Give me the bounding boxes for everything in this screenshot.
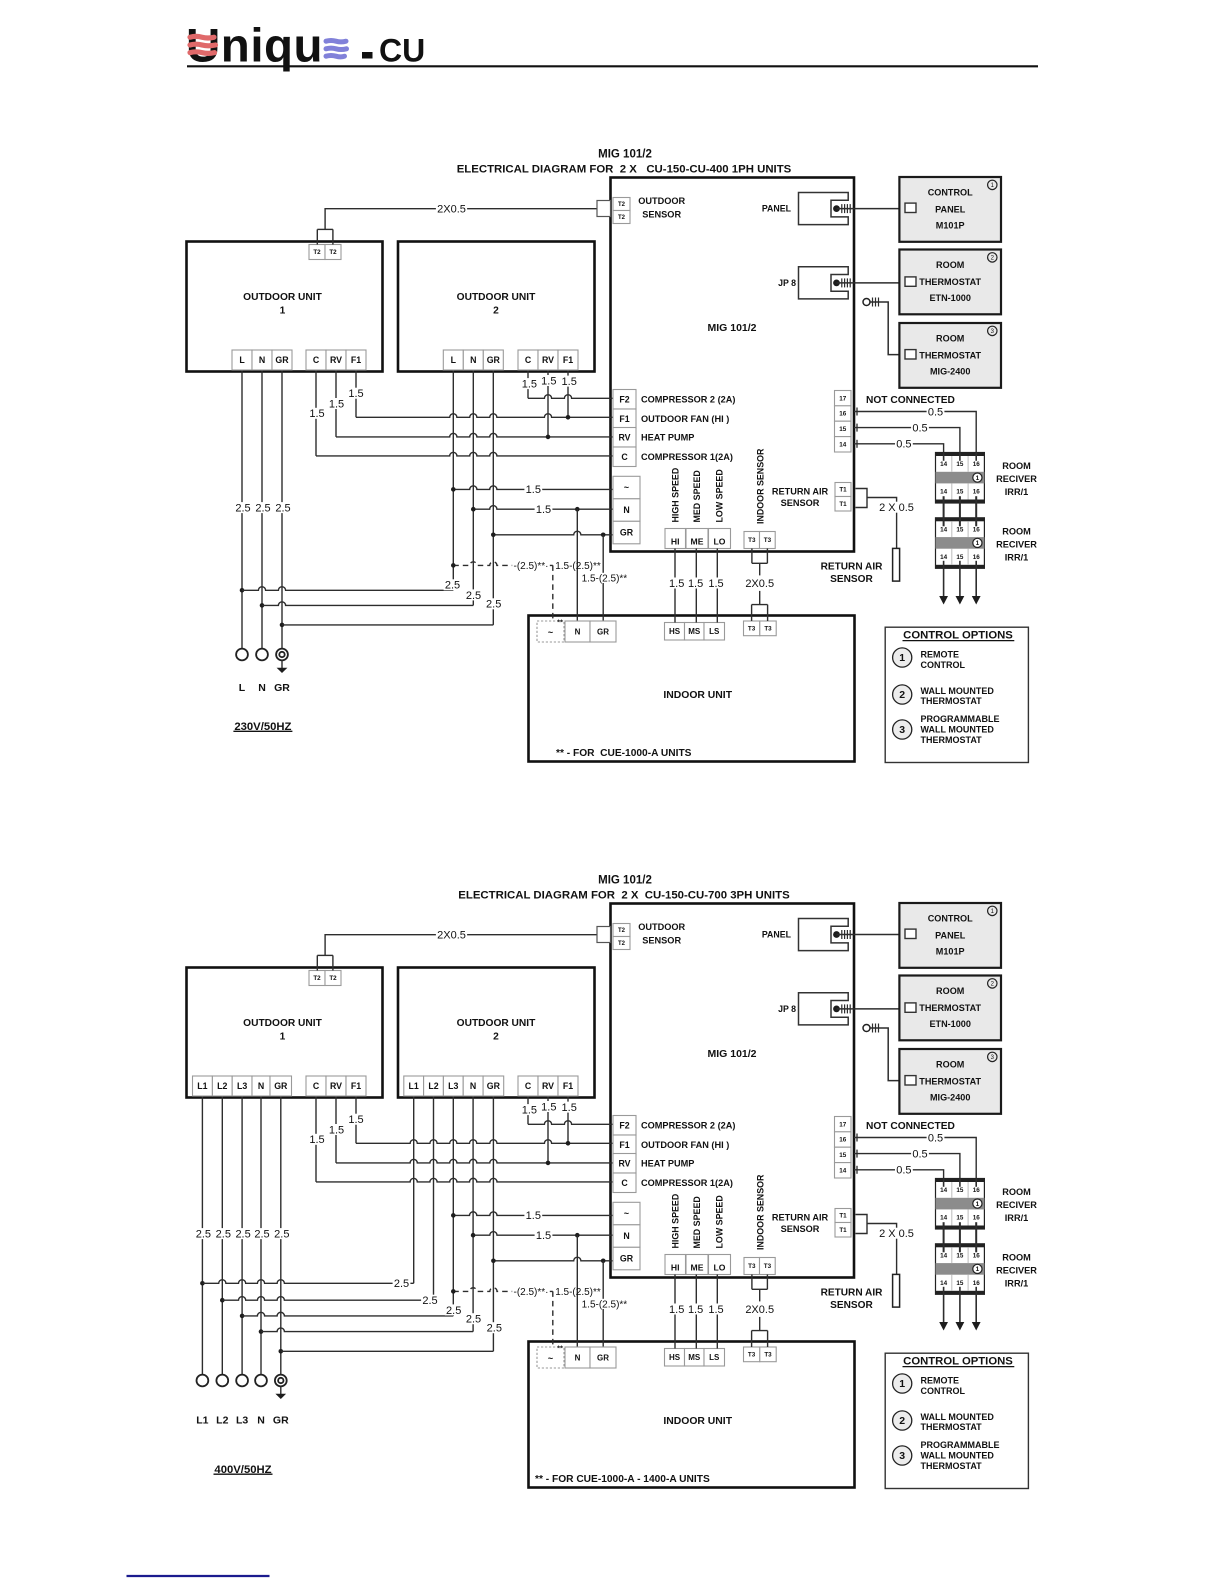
svg-text:L: L	[239, 682, 246, 694]
unit1 terminal L3	[232, 1076, 252, 1096]
svg-text:HEAT PUMP: HEAT PUMP	[641, 1158, 694, 1168]
svg-text:F1: F1	[619, 1140, 629, 1150]
unit1 terminal N	[252, 1076, 270, 1096]
svg-text:THERMOSTAT: THERMOSTAT	[921, 1461, 983, 1471]
svg-text:16: 16	[973, 527, 981, 534]
svg-text:CONTROL OPTIONS: CONTROL OPTIONS	[903, 1355, 1013, 1367]
svg-text:HEAT PUMP: HEAT PUMP	[641, 432, 694, 442]
svg-text:2.5: 2.5	[486, 599, 501, 611]
svg-text:ELECTRICAL DIAGRAM FOR 2 X: ELECTRICAL DIAGRAM FOR 2 X CU-150-CU-400…	[457, 164, 792, 176]
wire N down to indoor	[576, 509, 578, 621]
main terminal RV	[613, 428, 636, 448]
svg-text:1.5: 1.5	[522, 1104, 537, 1116]
label 1.5 unit1 C	[308, 1134, 326, 1145]
connector PANEL	[799, 919, 849, 951]
logo blue stripes (e)	[326, 41, 346, 42]
dashed ~ wire to indoor	[453, 562, 553, 566]
main terminal HI	[665, 1255, 686, 1275]
wire unit1 RV to main RV	[335, 370, 337, 437]
svg-text:CU: CU	[379, 33, 425, 69]
wire GR down to indoor	[602, 1261, 604, 1347]
svg-text:GR: GR	[620, 1254, 634, 1264]
svg-text:ROOM: ROOM	[936, 334, 964, 344]
svg-text:2X0.5: 2X0.5	[745, 578, 774, 590]
label 2.5 supply	[254, 502, 272, 513]
svg-text:16: 16	[973, 554, 981, 561]
label 2X0.5 outdoor sensor	[436, 203, 467, 214]
main terminal GR	[613, 1247, 640, 1270]
main terminal ~	[613, 476, 640, 499]
svg-text:IRR/1: IRR/1	[1005, 553, 1029, 563]
label 1.5 unit2 F1	[560, 376, 578, 387]
svg-text:GR: GR	[274, 682, 290, 694]
main terminal C	[613, 447, 636, 467]
svg-text:2: 2	[493, 1032, 499, 1043]
svg-text:WALL MOUNTED: WALL MOUNTED	[921, 1450, 995, 1460]
svg-text:1.5: 1.5	[669, 1304, 684, 1316]
svg-text:L2: L2	[216, 1415, 228, 1427]
unit1 power wires down	[241, 370, 243, 649]
svg-text:ROOM: ROOM	[936, 260, 964, 270]
svg-text:N: N	[623, 505, 629, 515]
ground terminal circle	[275, 1375, 287, 1387]
svg-text:HIGH SPEED: HIGH SPEED	[670, 1193, 680, 1248]
outdoor unit 1 box	[187, 242, 383, 372]
supply terminal N	[256, 649, 268, 661]
svg-text:~: ~	[624, 483, 629, 493]
svg-text:N: N	[575, 627, 581, 636]
svg-text:L2: L2	[217, 1081, 227, 1091]
indoor terminal ~	[537, 621, 564, 642]
svg-text:T2: T2	[618, 941, 626, 947]
svg-text:RECIVER: RECIVER	[996, 540, 1037, 550]
svg-text:T2: T2	[329, 975, 337, 982]
svg-text:15: 15	[956, 489, 964, 496]
svg-text:GR: GR	[597, 627, 609, 636]
svg-text:N: N	[623, 1231, 629, 1241]
supply terminal N	[255, 1375, 267, 1387]
earth arrow	[281, 660, 283, 668]
svg-text:1: 1	[976, 1266, 980, 1273]
svg-text:REMOTE: REMOTE	[921, 649, 960, 659]
svg-text:F2: F2	[619, 394, 629, 404]
svg-text:COMPRESSOR 1(2A): COMPRESSOR 1(2A)	[641, 452, 733, 462]
svg-text:T2: T2	[313, 975, 321, 982]
svg-text:RETURN AIR: RETURN AIR	[772, 487, 829, 497]
outdoor sensor cable	[325, 209, 597, 230]
label 2.5 branch	[465, 1313, 483, 1324]
control option 2	[893, 1411, 912, 1430]
svg-text:2.5: 2.5	[235, 503, 250, 515]
fan speed wire to indoor	[695, 549, 697, 623]
unit1 terminal F1	[346, 1076, 366, 1096]
power branch lines to unit2	[200, 1281, 205, 1286]
svg-text:16: 16	[973, 1215, 981, 1222]
unit2 terminal F1	[558, 1076, 578, 1096]
svg-text:GR: GR	[275, 355, 289, 365]
svg-text:RV: RV	[618, 1158, 630, 1168]
svg-text:0.5: 0.5	[928, 1132, 943, 1144]
unit2 terminal RV	[538, 350, 558, 370]
svg-text:1.5: 1.5	[562, 376, 577, 388]
unit1 terminal F1	[346, 350, 366, 370]
indoor terminal T3 b	[760, 1347, 776, 1362]
svg-text:ROOM: ROOM	[936, 986, 964, 996]
main terminal F2	[613, 1116, 636, 1136]
main box T2 terminals	[613, 924, 630, 937]
wire stubs into receiver 1	[943, 1179, 945, 1187]
svg-text:CONTROL: CONTROL	[928, 188, 973, 198]
control box ETN-1000	[899, 976, 1001, 1041]
svg-text:MIG 101/2: MIG 101/2	[707, 1048, 756, 1060]
svg-text:2.5: 2.5	[196, 1228, 211, 1240]
logo red stripes	[190, 36, 214, 38]
svg-text:2.5: 2.5	[487, 1323, 502, 1335]
svg-text:14: 14	[940, 1253, 948, 1260]
main terminal N	[613, 1225, 640, 1248]
svg-text:1.5: 1.5	[536, 504, 551, 516]
svg-text:THERMOSTAT: THERMOSTAT	[921, 735, 983, 745]
unit2 terminal N	[463, 350, 483, 370]
svg-text:ROOM: ROOM	[1002, 1253, 1031, 1263]
control options box	[885, 1353, 1028, 1488]
svg-text:PANEL: PANEL	[762, 204, 792, 214]
power branch lines to unit2	[240, 588, 245, 593]
unit2 terminal RV	[538, 1076, 558, 1096]
svg-text:1.5: 1.5	[329, 398, 344, 410]
svg-text:1: 1	[280, 1032, 286, 1043]
svg-text:15: 15	[956, 461, 964, 468]
svg-text:T2: T2	[618, 928, 626, 934]
room receiver IRR/1 block 2	[936, 518, 985, 569]
T2 cable bracket	[316, 955, 318, 970]
svg-text:PANEL: PANEL	[762, 930, 792, 940]
control option 1	[893, 648, 912, 667]
control option 1	[893, 1374, 912, 1393]
svg-text:0.5: 0.5	[928, 406, 943, 418]
svg-text:L2: L2	[428, 1081, 438, 1091]
wire N feed line	[473, 1232, 613, 1236]
outdoor sensor cable	[325, 935, 597, 956]
svg-text:14: 14	[839, 442, 847, 449]
svg-text:SENSOR: SENSOR	[830, 1300, 873, 1311]
svg-text:2: 2	[899, 1415, 905, 1427]
svg-text:OUTDOOR UNIT: OUTDOOR UNIT	[457, 1018, 536, 1029]
svg-text:14: 14	[940, 1215, 948, 1222]
main terminal 16	[835, 1132, 852, 1147]
svg-text:F1: F1	[563, 355, 573, 365]
svg-text:N: N	[470, 355, 476, 365]
indoor terminal HS	[665, 1349, 685, 1367]
main terminal 17	[835, 1117, 852, 1132]
svg-text:~: ~	[624, 1209, 629, 1219]
svg-text:PANEL: PANEL	[935, 930, 966, 940]
svg-text:OUTDOOR UNIT: OUTDOOR UNIT	[243, 292, 322, 303]
svg-text:15: 15	[956, 1280, 964, 1287]
label 2.5 branch	[485, 1322, 503, 1333]
svg-text:THERMOSTAT: THERMOSTAT	[921, 1422, 983, 1432]
T3 bracket at indoor unit	[752, 604, 768, 606]
svg-text:THERMOSTAT: THERMOSTAT	[919, 277, 981, 287]
wire unit2 F1 joins F1 line	[567, 370, 569, 417]
control box ETN-1000	[899, 250, 1001, 315]
connector square MIG-2400	[905, 1076, 916, 1085]
connector JP 8	[799, 267, 849, 299]
svg-text:ROOM: ROOM	[936, 1060, 964, 1070]
svg-text:ELECTRICAL DIAGRAM FOR 2 X C: ELECTRICAL DIAGRAM FOR 2 X CU-150-CU-700…	[458, 890, 790, 902]
T3 bracket at indoor unit	[752, 1330, 768, 1332]
T1 cable bracket	[856, 1215, 868, 1234]
wire unit2 C to main F2	[527, 370, 529, 398]
main terminal 16	[835, 406, 852, 421]
label 1.5-(2.5)** GR wire	[580, 573, 628, 583]
svg-text:N: N	[258, 682, 266, 694]
svg-text:T2: T2	[618, 215, 626, 221]
svg-text:RETURN AIR: RETURN AIR	[821, 1287, 884, 1298]
svg-text:INDOOR UNIT: INDOOR UNIT	[663, 690, 732, 701]
svg-text:T2: T2	[618, 202, 626, 208]
wire unit1 RV to main RV	[335, 1096, 337, 1163]
svg-text:INDOOR UNIT: INDOOR UNIT	[663, 1416, 732, 1427]
svg-text:T1: T1	[839, 487, 847, 494]
svg-text:OUTDOOR FAN (HI ): OUTDOOR FAN (HI )	[641, 414, 729, 424]
main controller box MIG 101/2	[611, 904, 855, 1278]
unit2 terminal L1	[404, 1076, 424, 1096]
svg-text:3: 3	[899, 1450, 905, 1462]
connector PANEL	[799, 193, 849, 225]
svg-text:L: L	[239, 355, 245, 365]
label (2.5)** dashed wire	[512, 1286, 550, 1296]
unit1 terminal C	[306, 1076, 326, 1096]
svg-text:2: 2	[493, 306, 499, 317]
svg-text:14: 14	[940, 489, 948, 496]
control options box	[885, 627, 1028, 762]
svg-text:F1: F1	[351, 1081, 361, 1091]
label 1.5 unit2 C	[521, 378, 539, 389]
label 2.5 supply	[214, 1228, 232, 1239]
svg-text:16: 16	[839, 1137, 847, 1144]
svg-text:15: 15	[839, 426, 847, 433]
wire GR feed line	[493, 1257, 613, 1261]
wire unit1 C to main C	[315, 370, 317, 456]
svg-text:NOT CONNECTED: NOT CONNECTED	[866, 1121, 955, 1132]
svg-text:N: N	[470, 1081, 476, 1091]
svg-text:N: N	[257, 1415, 265, 1427]
main terminal C	[613, 1173, 636, 1193]
svg-text:2.5: 2.5	[466, 590, 481, 602]
svg-text:RV: RV	[330, 1081, 342, 1091]
wire panel to control panel M101P	[837, 934, 904, 936]
unit1 T2 terminals	[309, 971, 325, 986]
svg-text:C: C	[525, 1081, 532, 1091]
svg-text:1: 1	[976, 475, 980, 482]
svg-text:CONTROL: CONTROL	[921, 660, 966, 670]
unit1 power wires down	[201, 1096, 203, 1375]
svg-text:1.5: 1.5	[708, 1304, 723, 1316]
indoor terminal N	[565, 621, 590, 642]
svg-text:1.5: 1.5	[536, 1230, 551, 1242]
svg-text:2 X 0.5: 2 X 0.5	[879, 502, 914, 514]
svg-text:INDOOR SENSOR: INDOOR SENSOR	[756, 448, 766, 524]
connector square M101P	[905, 203, 916, 212]
svg-text:IRR/1: IRR/1	[1005, 487, 1029, 497]
svg-text:T2: T2	[329, 249, 337, 256]
main box outdoor sensor connector	[597, 927, 611, 943]
svg-text:1.5: 1.5	[708, 578, 723, 590]
svg-text:14: 14	[940, 554, 948, 561]
svg-text:C: C	[621, 1178, 628, 1188]
svg-text:2.5: 2.5	[446, 1305, 461, 1317]
svg-text:SENSOR: SENSOR	[830, 574, 873, 585]
wire unit2 RV joins RV line	[547, 370, 549, 437]
svg-text:1.5: 1.5	[526, 484, 541, 496]
svg-text:MED SPEED: MED SPEED	[692, 470, 702, 523]
main T3 terminals	[744, 1258, 760, 1275]
unit1 T2 terminals	[309, 245, 325, 260]
indoor terminal HS	[665, 623, 685, 641]
svg-text:PANEL: PANEL	[935, 204, 966, 214]
label 2X0.5 outdoor sensor	[436, 929, 467, 940]
outdoor unit 2 box	[398, 242, 595, 372]
svg-text:COMPRESSOR 1(2A): COMPRESSOR 1(2A)	[641, 1178, 733, 1188]
svg-text:15: 15	[956, 1253, 964, 1260]
wire stubs into receiver 1	[943, 453, 945, 461]
svg-text:2.5: 2.5	[216, 1228, 231, 1240]
svg-text:15: 15	[956, 1215, 964, 1222]
unit2 power wires down	[413, 1096, 415, 1283]
svg-text:RECIVER: RECIVER	[996, 1266, 1037, 1276]
T3 cable down	[751, 549, 753, 564]
svg-text:1.5: 1.5	[348, 388, 363, 400]
label 2.5 supply	[273, 1228, 291, 1239]
svg-text:1.5: 1.5	[562, 1102, 577, 1114]
svg-text:OUTDOOR: OUTDOOR	[638, 196, 685, 206]
svg-text:N: N	[258, 1081, 264, 1091]
label 2.5 branch	[485, 598, 503, 609]
svg-text:CONTROL OPTIONS: CONTROL OPTIONS	[903, 629, 1013, 641]
svg-text:14: 14	[940, 1187, 948, 1194]
svg-text:0.5: 0.5	[912, 1148, 927, 1160]
svg-text:-(2.5)**·: -(2.5)**·	[513, 561, 548, 572]
svg-text:WALL MOUNTED: WALL MOUNTED	[921, 1412, 995, 1422]
label 1.5 unit1 F1	[347, 1114, 365, 1125]
label 1.5 unit1 RV	[328, 1124, 346, 1135]
svg-text:2.5: 2.5	[445, 580, 460, 592]
svg-text:HS: HS	[669, 1353, 681, 1362]
svg-text:T1: T1	[839, 1213, 847, 1220]
svg-text:RV: RV	[330, 355, 342, 365]
svg-text:MIG 101/2: MIG 101/2	[707, 322, 756, 334]
earth arrow	[280, 1386, 282, 1394]
svg-text:THERMOSTAT: THERMOSTAT	[919, 1003, 981, 1013]
svg-text:2X0.5: 2X0.5	[437, 204, 466, 216]
svg-text:HS: HS	[669, 627, 681, 636]
svg-text:L1: L1	[409, 1081, 419, 1091]
unit1 terminal L	[232, 350, 252, 370]
fan speed wire to indoor	[716, 1275, 718, 1349]
main terminal LO	[709, 529, 731, 549]
unit2 terminal C	[518, 350, 538, 370]
connector JP 8	[799, 993, 849, 1025]
dashed ~ wire to indoor	[453, 1288, 553, 1292]
unit2 terminal L	[443, 350, 463, 370]
unit2 terminal C	[518, 1076, 538, 1096]
wire GR down to indoor	[602, 535, 604, 621]
main terminal ~	[613, 1202, 640, 1225]
outdoor unit 1 box	[187, 968, 383, 1098]
bottom blue rule	[127, 1575, 270, 1577]
wires between receivers	[943, 496, 945, 526]
indoor unit box	[529, 616, 855, 762]
label 2.5 supply	[253, 1228, 271, 1239]
svg-text:PROGRAMMABLE: PROGRAMMABLE	[921, 714, 1000, 724]
connector square ETN-1000	[905, 1003, 916, 1012]
svg-text:16: 16	[973, 461, 981, 468]
svg-text:2X0.5: 2X0.5	[437, 930, 466, 942]
svg-text:1.5-(2.5)**: 1.5-(2.5)**	[582, 573, 628, 584]
svg-text:2: 2	[899, 689, 905, 701]
wire unit1 F1 to main F1	[355, 1096, 357, 1143]
wire 0.5 to room receiver	[854, 1170, 944, 1179]
indoor terminal T3 a	[744, 621, 760, 636]
label 1.5 unit2 C	[521, 1104, 539, 1115]
svg-text:15: 15	[956, 554, 964, 561]
indoor terminal T3 a	[744, 1347, 760, 1362]
main T1 terminals	[835, 483, 851, 497]
svg-text:RV: RV	[542, 1081, 554, 1091]
svg-text:MIG-2400: MIG-2400	[930, 367, 970, 377]
svg-text:M101P: M101P	[936, 947, 965, 957]
svg-text:2.5: 2.5	[466, 1314, 481, 1326]
main terminal 14	[835, 437, 852, 452]
T1 cable bracket	[856, 489, 868, 508]
main terminal 14	[835, 1163, 852, 1178]
svg-text:L1: L1	[197, 1081, 207, 1091]
svg-text:ETN-1000: ETN-1000	[929, 293, 970, 303]
label 1.5 unit2 RV	[540, 1101, 558, 1112]
svg-text:16: 16	[839, 411, 847, 418]
svg-text:COMPRESSOR 2 (2A): COMPRESSOR 2 (2A)	[641, 1120, 735, 1130]
svg-text:15: 15	[956, 1187, 964, 1194]
svg-text:THERMOSTAT: THERMOSTAT	[919, 1076, 981, 1086]
wires between receivers	[943, 1222, 945, 1252]
svg-text:T1: T1	[839, 501, 847, 508]
room receiver IRR/1 block 2	[936, 1244, 985, 1295]
wire GR feed line	[493, 531, 613, 535]
svg-text:MS: MS	[688, 1353, 701, 1362]
svg-text:2.5: 2.5	[255, 503, 270, 515]
label 1.5 unit2 F1	[560, 1102, 578, 1113]
label 1.5 unit1 F1	[347, 388, 365, 399]
room receiver IRR/1 block 1	[936, 453, 985, 504]
svg-text:1.5: 1.5	[688, 1304, 703, 1316]
indoor terminal LS	[704, 1349, 725, 1367]
main terminal 15	[835, 1147, 852, 1162]
indoor terminal LS	[704, 623, 725, 641]
main terminal GR	[613, 521, 640, 544]
svg-text:OUTDOOR: OUTDOOR	[638, 922, 685, 932]
unit1 terminal C	[306, 350, 326, 370]
svg-text:IRR/1: IRR/1	[1005, 1279, 1029, 1289]
svg-text:COMPRESSOR 2 (2A): COMPRESSOR 2 (2A)	[641, 394, 735, 404]
label 2.5 supply	[195, 1228, 213, 1239]
svg-text:GR: GR	[274, 1081, 288, 1091]
svg-text:1.5: 1.5	[309, 1134, 324, 1146]
svg-text:**: **	[557, 1346, 563, 1353]
svg-text:1.5: 1.5	[348, 1114, 363, 1126]
svg-text:17: 17	[839, 1121, 847, 1128]
svg-text:1.5: 1.5	[329, 1124, 344, 1136]
